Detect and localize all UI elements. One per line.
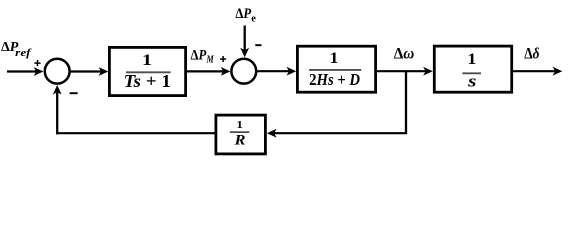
svg-text:1: 1 xyxy=(330,50,339,67)
minus sign at S2 xyxy=(255,44,261,46)
label dPref xyxy=(1,40,32,59)
label dPM xyxy=(191,48,215,66)
block G3 1/s xyxy=(434,46,511,92)
wire output xyxy=(513,67,562,76)
svg-text:e: e xyxy=(251,14,256,25)
svg-text:ΔP: ΔP xyxy=(191,48,207,64)
plus sign at S1 xyxy=(34,60,40,66)
svg-text:1: 1 xyxy=(142,52,152,69)
feedback wire left from block R xyxy=(56,132,215,134)
svg-text:ΔP: ΔP xyxy=(235,6,251,22)
svg-text:Δω: Δω xyxy=(394,46,415,63)
block R 1/R xyxy=(216,115,266,154)
svg-text:2Hs + D: 2Hs + D xyxy=(309,70,360,89)
wire dPe down into S2 xyxy=(240,26,249,58)
G2 fraction bar xyxy=(309,69,361,71)
wire S2 to block G2 xyxy=(257,67,296,76)
G1 fraction bar xyxy=(126,71,171,73)
feedback wire left into block R xyxy=(267,129,407,138)
block G2 1/(2Hs+D) xyxy=(297,46,375,92)
svg-text:1: 1 xyxy=(467,51,476,68)
plus sign at S2 xyxy=(220,56,226,62)
wire G1 to summing junction S2 xyxy=(187,67,230,76)
svg-text:Δδ: Δδ xyxy=(524,46,539,63)
summing junction S2 xyxy=(231,59,256,84)
wire G2 to block G3 xyxy=(377,67,433,76)
block G1 1/(Ts+1) xyxy=(109,47,185,95)
svg-text:s: s xyxy=(467,71,477,90)
feedback wire up into S1 xyxy=(53,85,62,134)
wire input to summing junction S1 xyxy=(7,67,43,76)
R fraction bar xyxy=(230,131,250,133)
svg-text:Ts + 1: Ts + 1 xyxy=(124,71,171,91)
summing junction S1 xyxy=(45,59,70,84)
svg-text:M: M xyxy=(206,54,214,65)
feedback wire down from node xyxy=(405,71,407,133)
svg-text:1: 1 xyxy=(236,119,243,131)
minus sign at S1 xyxy=(70,92,78,94)
svg-text:ref: ref xyxy=(15,47,32,59)
wire S1 to block G1 xyxy=(70,67,108,76)
svg-text:R: R xyxy=(234,132,246,148)
label dPe xyxy=(235,6,256,24)
G3 fraction bar xyxy=(462,72,481,74)
